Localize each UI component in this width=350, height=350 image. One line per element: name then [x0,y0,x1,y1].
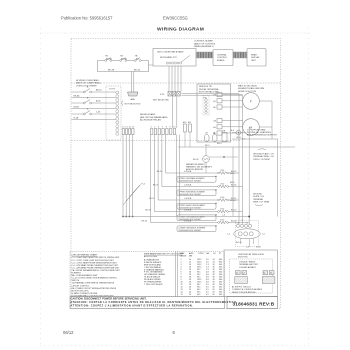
svg-text:RADIANT ELEMENT: RADIANT ELEMENT [186,163,206,166]
op-amp U1 UIB/LONGHORN board [153,49,196,67]
svg-text:L1: L1 [236,273,238,275]
svg-text:UNIT: UNIT [251,60,257,62]
svg-text:L-8 BLA: L-8 BLA [184,170,192,173]
console section divider [71,82,281,84]
central control board U2 [213,50,233,66]
wire gauge table [176,252,222,297]
wires relays right and down [172,94,242,129]
svg-text:C-3 - CONT. MEAT PROBE WIRING/: C-3 - CONT. MEAT PROBE WIRING/SENSOR UNI… [72,261,118,264]
ribbon cable J2 [233,52,247,58]
terminal lug group 1 [235,271,248,284]
svg-text:P-4: P-4 [142,184,146,186]
thermal limiter box [98,61,149,72]
svg-text:KEYBOARD P22: KEYBOARD P22 [160,56,177,59]
svg-text:FT: FT [219,253,222,255]
element label box E4 [177,214,217,221]
svg-text:WARNING: DEL ELEMENTS: WARNING: DEL ELEMENTS [186,165,213,168]
part number box [227,297,278,309]
svg-text:C-5 - LWR MEAT PROBE THERMISTO: C-5 - LWR MEAT PROBE THERMISTOR/PROBE UN… [72,266,121,269]
terminal lug group 2 [262,271,275,284]
svg-text:A: A [87,108,89,111]
resistor R30 [183,121,187,147]
svg-text:F: F [250,99,252,103]
svg-text:W-39: W-39 [256,247,262,249]
svg-text:PLATE # LH: PLATE # LH [253,195,265,198]
svg-text:L-5: L-5 [262,234,266,236]
svg-text:6: 6 [173,330,176,335]
terminal posts [236,220,251,227]
svg-text:BK-39: BK-39 [231,185,236,187]
svg-text:BK-31: BK-31 [153,185,159,187]
relay K1-K3 [160,92,180,97]
svg-text:AS FOLLOWS: AS FOLLOWS [144,255,158,258]
TB1 lugs [238,232,253,236]
svg-text:L1: L1 [237,222,239,224]
svg-text:TERMINAL FACTORY: TERMINAL FACTORY [239,263,259,266]
svg-text:TURN # LH TERM: TURN # LH TERM [253,159,270,161]
TB1 labels [227,234,266,249]
svg-text:SERVICE TIP:: SERVICE TIP: [199,86,213,88]
junction node A [210,156,239,158]
svg-text:(BACK OF CLEAR PANEL): (BACK OF CLEAR PANEL) [76,82,101,85]
svg-text:Y YELLOW/Y BLACK: Y YELLOW/Y BLACK [144,283,163,286]
rear display unit U3 [247,49,266,67]
svg-text:W-5B: W-5B [74,107,80,109]
svg-text:BK-5: BK-5 [230,173,235,175]
svg-text:BK-36: BK-36 [230,200,236,202]
main diagram border [71,39,281,309]
svg-text:L1: L1 [263,273,265,275]
svg-text:L750: L750 [220,220,224,222]
svg-text:12: 12 [122,127,124,129]
wire M2 to rail [259,126,272,128]
svg-text:8: 8 [166,127,167,129]
TB1 lead wires [241,239,254,247]
svg-text:300: 300 [219,294,222,296]
svg-text:4 P4: 4 P4 [160,94,165,96]
svg-text:13: 13 [125,127,127,129]
thermal limiter TB1 [105,56,112,62]
switch S1 [71,86,116,93]
connector P30 [203,96,209,116]
svg-text:L750: L750 [220,209,224,211]
heating element E2 [177,184,243,188]
svg-text:UIB / LONGHORN BOARD: UIB / LONGHORN BOARD [157,50,184,53]
svg-text:T-A THERMAL OVEN WIRE IN THERM: T-A THERMAL OVEN WIRE IN THERMOSTAT IN [72,282,115,285]
svg-text:(BACK OF CONTROL: (BACK OF CONTROL [194,42,216,45]
svg-text:GAUGE: GAUGE [180,255,188,258]
limited access box [224,250,278,297]
element label box E5 [177,225,217,232]
connector P1 pins [116,91,119,135]
svg-text:R-5B: R-5B [74,118,79,120]
svg-text:CONTROL: CONTROL [217,57,228,59]
oven cavity box [197,84,231,142]
svg-text:A-30: A-30 [96,100,101,103]
fold line left [40,28,42,344]
svg-text:TYPE T: TYPE T [198,253,205,255]
svg-text:REAR: REAR [251,54,257,57]
heating element E3 [177,197,239,201]
switch S2 [71,97,116,104]
svg-text:NOT SELECTED: NOT SELECTED [125,104,141,106]
svg-text:A2: A2 [213,106,215,109]
svg-text:BOTTOM HALOGEN: BOTTOM HALOGEN [199,91,219,94]
svg-text:TERMINAL: TERMINAL [253,198,264,201]
power rail L1 [238,94,240,225]
fold line bottom [40,345,310,347]
svg-text:A30: A30 [183,121,186,124]
svg-text:L750: L750 [220,170,224,172]
svg-text:BK-39: BK-39 [108,69,115,71]
svg-text:ELECTRIC: ELECTRIC [238,256,248,258]
title underline dotted [40,32,310,34]
callout P-4 [123,184,146,206]
svg-text:N-TA/NO CONNECTOR/LINE: N-TA/NO CONNECTOR/LINE [72,292,98,295]
svg-text:BK-5: BK-5 [230,182,235,184]
svg-text:BK-34: BK-34 [142,221,148,223]
svg-text:90C: 90C [197,294,201,296]
rail labels [230,173,236,202]
note ground plate lower [253,194,270,206]
svg-text:2500/3000W 240V 50/60HZ: 2500/3000W 240V 50/60HZ [179,230,202,232]
oven lamp L2 [213,133,218,142]
svg-text:CAUTION: DISCONNECT POWER BEFO: CAUTION: DISCONNECT POWER BEFORE SERVICI… [71,298,147,301]
element label box E3 [177,203,217,210]
element label box E2 [177,189,217,196]
svg-text:DISPLAY: DISPLAY [251,56,260,59]
svg-text:20: 20 [189,294,191,296]
wire staircase bundle B [142,135,178,223]
heating element E4 [177,209,243,213]
connector J3 pin group A [122,127,134,135]
ribbon cable J1 [196,52,213,58]
svg-text:BK-39: BK-39 [231,210,236,212]
svg-text:GROUND PLATE # LH: GROUND PLATE # LH [253,153,274,156]
svg-text:ELEMENT IN AN UNIFORM: ELEMENT IN AN UNIFORM [238,87,264,90]
svg-text:MM: MM [189,256,193,258]
svg-text:BK-30: BK-30 [157,171,163,173]
svg-text:LUG AND ALWAYS: LUG AND ALWAYS [239,266,256,269]
svg-text:15: 15 [181,294,183,296]
svg-text:BK-39: BK-39 [193,159,199,161]
wire BK-5 drop [232,147,234,217]
oven lamp L3 [222,131,227,142]
svg-text:4: 4 [151,127,152,129]
inner dashed box [230,259,273,293]
svg-text:CIRCUIT/WIRING CHART: CIRCUIT/WIRING CHART [72,253,98,256]
svg-text:TB: TB [105,56,108,58]
svg-text:TB: TB [120,56,123,58]
svg-text:L750: L750 [220,184,224,186]
svg-text:WIRE # LH TERM: WIRE # LH TERM [253,201,270,203]
svg-text:A4: A4 [213,126,215,129]
svg-text:2500/3000W 240V 50/60HZ: 2500/3000W 240V 50/60HZ [179,180,202,182]
svg-text:A3A: A3A [131,98,136,101]
relay section divider [71,140,240,142]
svg-text:7: 7 [162,127,163,129]
svg-text:L-8 BLA: L-8 BLA [184,220,192,223]
wire group B drop 1 [176,135,178,217]
legend box [70,252,225,297]
svg-text:RATED TORQUE APPLIED: RATED TORQUE APPLIED [232,291,256,294]
svg-text:TB: TB [135,56,138,58]
svg-text:318046831 REV:B: 318046831 REV:B [233,302,275,307]
svg-text:TO P2: TO P2 [109,88,116,90]
svg-text:CB: CB [205,133,208,135]
svg-text:L-8 BLA: L-8 BLA [184,184,192,187]
svg-text:CA - FRONT INFRARED/BROIL CONT: CA - FRONT INFRARED/BROIL CONTROL/WIRE U… [72,269,121,272]
svg-text:A1: A1 [213,100,215,103]
svg-text:BK-BK: BK-BK [106,58,113,60]
svg-text:TERMINAL WIRE # LH: TERMINAL WIRE # LH [253,155,274,158]
thermal limiter TB2 [120,56,127,62]
svg-text:BK-A5: BK-A5 [74,95,81,98]
connector P24 stem [132,72,134,93]
element label box E1 [177,176,217,183]
svg-text:ARE AT RUNNING AT SUPPORT: ARE AT RUNNING AT SUPPORT [247,134,278,137]
wire return loop 2 [71,107,116,109]
wire rail M drop [271,101,273,139]
svg-text:BK-BK: BK-BK [121,58,128,60]
svg-text:BK-5: BK-5 [217,143,222,145]
indicator DS1 [231,129,241,135]
wire DS1 to rail [241,133,246,141]
wire group B drop 2 [179,135,181,217]
caution box [70,297,225,309]
svg-text:A31: A31 [188,121,191,124]
svg-text:L-4: L-4 [227,234,231,236]
svg-text:2500/3000W 240V 50/60HZ: 2500/3000W 240V 50/60HZ [179,194,202,196]
svg-text:CERTIFIED AT WIRE GUIDE: CERTIFIED AT WIRE GUIDE [238,253,265,256]
svg-text:9: 9 [170,127,171,129]
svg-text:L2: L2 [243,273,245,275]
wire return loop 1 [71,95,116,98]
power rail L2 [242,95,244,224]
svg-text:A9-10: A9-10 [96,89,102,92]
note ground plate upper [253,149,274,161]
connector P24 plug [128,92,139,96]
svg-text:EW36CC55G: EW36CC55G [163,16,188,21]
svg-text:A-9: A-9 [231,129,234,132]
svg-text:BK-33: BK-33 [145,210,151,212]
wire BK-5 top [178,143,295,147]
heating element E5 [177,220,249,224]
svg-text:PANEL ASSEMBLY): PANEL ASSEMBLY) [194,45,214,48]
oven lamp L1 [205,133,210,142]
connector P1 housing [106,86,121,140]
heating element E1 [177,170,239,174]
svg-text:HI SPEED OVEN PANEL: HI SPEED OVEN PANEL [76,79,100,82]
svg-text:TO SUPPORT HEAT: TO SUPPORT HEAT [247,128,266,131]
svg-text:ALONGSIDE RELAY): ALONGSIDE RELAY) [140,119,161,122]
wire bundle A (4 wires to neutral) [123,135,133,217]
wire fuse box to UIB [149,64,154,66]
svg-text:CONNECT A # SERVICE ALWAYS: CONNECT A # SERVICE ALWAYS [232,288,263,291]
svg-text:LG: LG [213,253,216,255]
svg-text:GA: GA [206,252,209,255]
svg-text:BK-39: BK-39 [236,242,242,244]
svg-text:BK-32: BK-32 [149,198,155,200]
svg-text:L-8 BLA: L-8 BLA [184,197,192,200]
svg-text:ATTENTION: COUPEZ L'ALIMENTATI: ATTENTION: COUPEZ L'ALIMENTATION AVANT D… [71,305,194,308]
svg-text:PA - POWER CIRCUIT WIRING ATTE: PA - POWER CIRCUIT WIRING ATTESTED UNION [72,287,117,290]
neutral wire N [123,215,250,218]
lamp terminals lower [213,119,242,136]
svg-text:5: 5 [154,127,155,129]
svg-text:(BELOW THE MAINBOARD,: (BELOW THE MAINBOARD, [140,116,168,119]
svg-text:RELAY BOARD: RELAY BOARD [140,113,156,116]
svg-text:A: A [87,97,89,100]
svg-text:L-8 BLA: L-8 BLA [184,209,192,212]
motor M1 convection fan [243,93,260,110]
fold line right [308,28,310,344]
svg-text:MA - OVEN ELEMENT/LIGHT: MA - OVEN ELEMENT/LIGHT [72,274,99,277]
wire bundle U1 to relay pins [169,66,181,92]
svg-text:RUN AT UNIVERSAL: RUN AT UNIVERSAL [199,88,220,91]
svg-text:L2: L2 [246,222,248,224]
svg-text:C-4 - UPR MEAT PROBE THERMISTO: C-4 - UPR MEAT PROBE THERMISTOR/LIGHT UN… [72,264,119,267]
svg-text:CENTRAL: CENTRAL [217,54,228,57]
lamp terminals upper [213,93,242,110]
svg-text:HUMID SOLUTION: HUMID SOLUTION [238,91,257,93]
svg-text:WAIT 30 SECONDS: WAIT 30 SECONDS [238,84,257,87]
svg-text:06/12: 06/12 [63,330,74,335]
connector J4 pin group B [151,127,176,135]
svg-text:10: 10 [173,127,175,129]
svg-text:6: 6 [158,127,159,129]
switch S3 [71,108,116,115]
wire M1 to rail [259,100,272,102]
svg-text:0.5: 0.5 [206,294,209,296]
wire return loop 3 [71,118,116,120]
svg-text:1-30: 1-30 [96,112,101,114]
svg-text:BK: BK [136,58,139,60]
U1 pin row [166,55,190,64]
power rail G [248,127,250,224]
svg-text:BOARD: BOARD [217,59,225,62]
svg-text:Publication No: 5995616157: Publication No: 5995616157 [61,16,113,21]
svg-text:L750: L750 [220,197,224,199]
svg-text:20: 20 [213,294,215,296]
svg-text:AT SUPPLY CIRCUIT,: AT SUPPLY CIRCUIT, [232,286,252,289]
ground wire top [232,137,278,216]
svg-text:BK-32: BK-32 [134,69,141,71]
svg-text:IN OVEN, ALL FEATURES: IN OVEN, ALL FEATURES [247,131,271,134]
svg-text:15: 15 [132,127,134,129]
svg-text:14: 14 [129,127,131,129]
svg-text:DB: DB [213,121,216,123]
svg-text:BK-5: BK-5 [205,145,210,147]
svg-text:NOT SELECTED: NOT SELECTED [153,99,169,101]
svg-text:CONTROL BOARD: CONTROL BOARD [194,40,213,43]
thermal limiter TB3 [134,56,141,62]
svg-text:WIRING DIAGRAM: WIRING DIAGRAM [157,27,204,33]
terminal block TB1 [234,229,260,239]
svg-text:L2: L2 [270,273,272,275]
note not selected [122,101,141,106]
terminal block housing [236,221,259,247]
junction dots bundle A [122,216,133,218]
svg-text:TORQUE / RATED: TORQUE / RATED [239,261,256,264]
motor M2 cooling fan [243,119,260,136]
resistor R31 [188,121,192,147]
thermostat TH1 [193,147,209,173]
